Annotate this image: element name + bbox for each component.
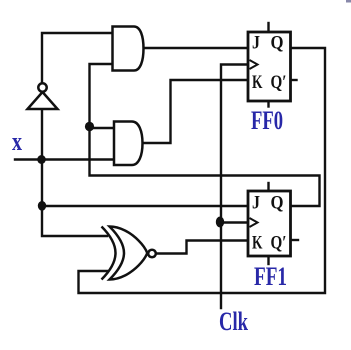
svg-text:Q′: Q′ (271, 72, 287, 93)
svg-text:K: K (252, 233, 263, 254)
svg-text:x: x (12, 127, 22, 156)
svg-text:Q: Q (271, 33, 284, 54)
svg-text:K: K (252, 72, 263, 93)
svg-text:FF0: FF0 (251, 106, 283, 135)
svg-text:J: J (252, 193, 260, 214)
svg-text:Clk: Clk (219, 307, 248, 336)
svg-text:FF1: FF1 (254, 262, 287, 291)
svg-text:Q: Q (271, 193, 284, 214)
svg-text:Q′: Q′ (271, 233, 287, 254)
svg-text:J: J (252, 33, 260, 54)
